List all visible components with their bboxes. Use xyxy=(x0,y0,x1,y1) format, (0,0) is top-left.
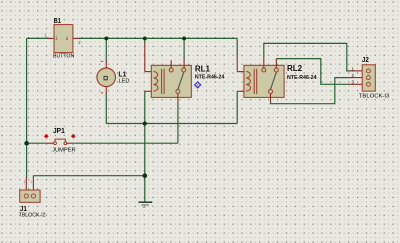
svg-text:L1: L1 xyxy=(118,70,127,79)
svg-text:TBLOCK-I2: TBLOCK-I2 xyxy=(19,213,46,219)
wire RL1 NO drop xyxy=(183,38,185,59)
wire B1 left to left rail xyxy=(27,37,49,39)
svg-text:RL1: RL1 xyxy=(195,64,211,73)
svg-text:2: 2 xyxy=(66,36,69,41)
node junction ground row xyxy=(143,121,147,125)
wire RL2 NO contact to J2 pin3 xyxy=(276,59,350,85)
svg-text:B1: B1 xyxy=(54,16,61,25)
wire J1 row xyxy=(33,175,144,177)
wire left vertical rail xyxy=(26,38,28,178)
jumper JP1 xyxy=(44,126,76,154)
no-model marker RL1 xyxy=(195,82,201,88)
relay RL1 xyxy=(145,59,225,104)
wire RL2 coil feed from bus xyxy=(236,38,238,55)
svg-text:JUMPER: JUMPER xyxy=(52,148,76,154)
svg-text:J2: J2 xyxy=(362,57,369,64)
svg-text:LED: LED xyxy=(119,79,130,85)
terminal block J1 xyxy=(19,177,46,219)
wire RL1 common down xyxy=(177,103,179,143)
wire L1 top drop xyxy=(105,38,107,62)
svg-text:1: 1 xyxy=(24,180,26,184)
wire jumper row left xyxy=(27,142,47,144)
svg-text:J1: J1 xyxy=(20,204,27,213)
node junction on bus at RL1 NO xyxy=(182,36,186,40)
wire RL2 NC contact to J2 pin1 xyxy=(264,43,350,71)
wire ground row horizontal xyxy=(106,123,237,125)
terminal block J2 xyxy=(350,57,390,100)
svg-text:NTE-R46-24: NTE-R46-24 xyxy=(287,75,317,81)
svg-text:JP1: JP1 xyxy=(53,126,65,135)
wire top bus xyxy=(79,37,237,39)
svg-text:NTE-R46-24: NTE-R46-24 xyxy=(195,75,225,81)
svg-text:TBLOCK-I3: TBLOCK-I3 xyxy=(359,93,390,99)
node junction J1 row xyxy=(143,173,148,178)
node junction on bus at L1 xyxy=(104,36,108,40)
wire RL1 coil feed xyxy=(144,38,146,44)
relay RL2 xyxy=(237,58,316,102)
wire RL1 coil to ground xyxy=(144,91,146,202)
wire J1 pin2 up xyxy=(32,176,34,178)
wire jumper row right xyxy=(73,142,178,144)
button B1 xyxy=(44,16,81,59)
svg-text:BUTTON: BUTTON xyxy=(53,53,74,59)
svg-text:RL2: RL2 xyxy=(287,64,303,73)
node junction on bus at RL1 coil xyxy=(143,36,147,40)
wire L1 bottom to ground row xyxy=(105,93,107,124)
wire RL2 common to J2 pin2 xyxy=(271,78,350,104)
svg-text:2: 2 xyxy=(31,180,33,184)
wire RL2 coil to ground row xyxy=(236,91,238,123)
node junction jumper left xyxy=(24,141,29,146)
LED L1 xyxy=(97,61,130,93)
ground xyxy=(138,202,152,207)
svg-text:1: 1 xyxy=(55,36,58,41)
